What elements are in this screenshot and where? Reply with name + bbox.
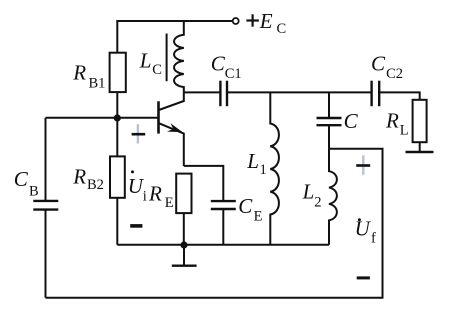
- resistor RE: [176, 174, 191, 214]
- svg-text:E: E: [254, 208, 263, 224]
- label minus (Uf): [357, 276, 370, 279]
- capacitor CC2: [372, 81, 380, 107]
- capacitor CB: [33, 118, 58, 298]
- wire CC2 to RL: [379, 92, 420, 99]
- label + (Uf plus): [356, 155, 370, 175]
- label CC1: [211, 52, 242, 82]
- svg-text:L: L: [400, 122, 409, 138]
- svg-text:E: E: [165, 195, 174, 211]
- svg-text:R: R: [72, 60, 86, 84]
- label CB: [14, 167, 39, 200]
- emitter arrow: [167, 123, 183, 132]
- label minus (Ui): [130, 224, 142, 228]
- svg-text:C1: C1: [225, 66, 242, 82]
- base bar: [157, 101, 160, 133]
- svg-text:B: B: [29, 184, 39, 200]
- terminal +EC open circle: [233, 18, 239, 24]
- label L2: [302, 180, 322, 211]
- label Ui: [128, 170, 147, 204]
- wire base node down to RB2: [116, 118, 118, 156]
- wire collector rail: [184, 91, 221, 93]
- svg-text:E: E: [259, 9, 273, 33]
- wire RB1 bottom to base node: [116, 92, 118, 118]
- inductor LC core bar: [166, 34, 168, 82]
- inductor LC: [174, 21, 184, 92]
- svg-text:R: R: [72, 165, 86, 189]
- wire inner bottom rail: [117, 244, 329, 246]
- label LC: [139, 48, 162, 78]
- label RL: [385, 108, 409, 138]
- transistor Q1: [159, 92, 184, 166]
- svg-text:i: i: [143, 188, 147, 204]
- emitter diagonal: [159, 123, 184, 166]
- svg-text:U: U: [355, 217, 372, 241]
- capacitor CC1: [220, 81, 227, 107]
- wire top supply rail: [117, 21, 232, 53]
- label RB2: [72, 165, 104, 194]
- resistor RB1: [110, 53, 126, 92]
- capacitor C with branch wires: [317, 92, 342, 148]
- svg-text:C: C: [371, 51, 386, 75]
- svg-text:1: 1: [260, 162, 267, 178]
- inductor L2: [329, 149, 337, 245]
- svg-text:2: 2: [314, 195, 321, 211]
- svg-text:C: C: [211, 52, 226, 76]
- svg-text:R: R: [385, 108, 399, 132]
- svg-text:B1: B1: [89, 76, 106, 92]
- svg-text:L: L: [246, 149, 259, 173]
- resistor RL: [413, 100, 427, 142]
- svg-text:C: C: [14, 167, 29, 191]
- label C: [344, 109, 359, 133]
- wire base: [46, 117, 159, 119]
- inductor L1: [270, 92, 279, 244]
- resistor RB2: [110, 156, 125, 197]
- label + of +EC: [246, 14, 259, 26]
- label RE: [148, 181, 174, 211]
- junction dot base node: [114, 114, 121, 121]
- label L1: [246, 149, 267, 178]
- label RB1: [72, 60, 105, 91]
- label + (Ui plus): [132, 124, 146, 143]
- ground (RL): [406, 142, 434, 152]
- svg-text:C: C: [277, 21, 287, 37]
- svg-text:C: C: [152, 62, 162, 78]
- svg-text:C: C: [238, 194, 253, 218]
- wire emitter branch to CE: [184, 166, 224, 201]
- label Uf: [355, 217, 376, 247]
- wire CC1 to CC2: [227, 91, 372, 93]
- svg-text:R: R: [148, 181, 162, 205]
- wire RB2 to inner bottom rail: [116, 198, 118, 245]
- label +EC: [259, 9, 286, 37]
- wire output port box (Uf): [46, 149, 383, 298]
- svg-text:L: L: [139, 48, 152, 72]
- svg-text:f: f: [371, 231, 376, 247]
- svg-text:C: C: [344, 109, 359, 133]
- ground (emitter): [172, 245, 197, 266]
- wire RE bottom to rail: [183, 213, 185, 245]
- label CE: [238, 194, 262, 224]
- junction dot emitter ground node: [180, 241, 187, 248]
- svg-text:C2: C2: [386, 66, 403, 82]
- collector diagonal: [159, 92, 184, 110]
- capacitor CE: [211, 201, 236, 245]
- label CC2: [371, 51, 403, 82]
- svg-text:L: L: [302, 180, 315, 204]
- svg-text:B2: B2: [87, 177, 104, 193]
